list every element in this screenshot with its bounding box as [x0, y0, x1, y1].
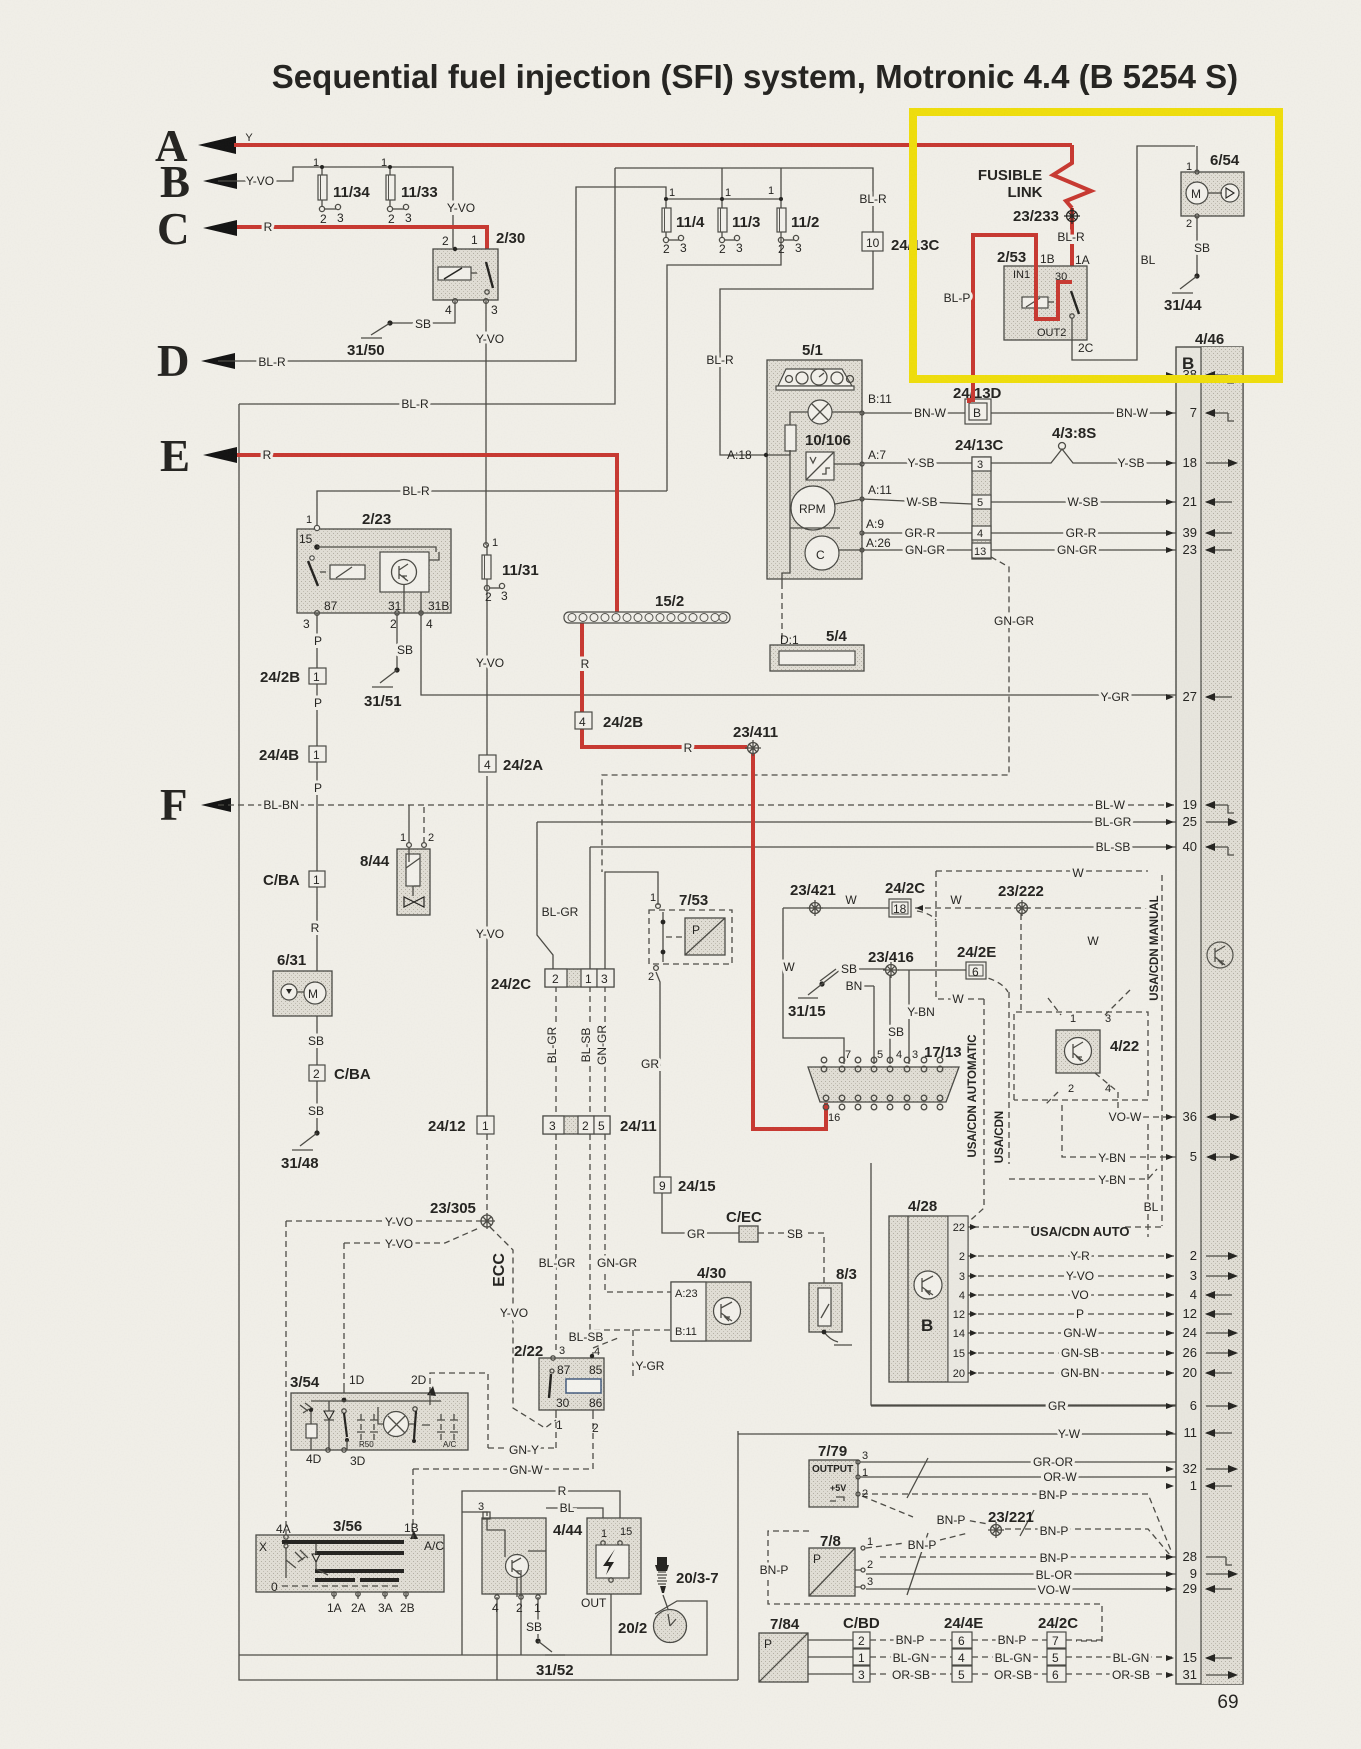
wire dashed VO-W to pin 36 — [1118, 1092, 1176, 1117]
wire 24/11 cells down dashed — [556, 1134, 671, 1352]
wire C/BD to 24/4E dashed rows — [870, 1640, 952, 1674]
wire red 23/411 down to 17/13 pin16 — [753, 753, 826, 1129]
connector 24/4E — [944, 1615, 983, 1682]
connector C/BA 2 — [309, 1065, 371, 1083]
connector 24/2C bottom — [1038, 1615, 1078, 1682]
wire 4/44 pin1 to SB ground 31/52 — [537, 1597, 539, 1638]
wire 24/15 down GR to C-EC — [662, 1192, 739, 1233]
wire 5/1 A:11 W-SB row to pin 21 — [862, 499, 1176, 504]
wire F row BL-BN BL-W dashed — [218, 804, 1176, 806]
wire 3/54 risers — [344, 1387, 430, 1393]
connector C/EC — [726, 1209, 762, 1242]
connector 24/4B — [259, 746, 326, 764]
wire BL-OR row to pin 9 — [866, 1573, 1176, 1575]
connector 24/2C-18 — [885, 880, 925, 917]
wire Y-VO dashed rows at 23/305 — [286, 1221, 479, 1243]
fusible link zigzag — [1053, 145, 1091, 208]
connector 24/12 — [428, 1116, 494, 1135]
wire 2/30 coil pin2 riser — [454, 248, 456, 254]
transistor 4/22 — [1056, 1013, 1139, 1095]
wire 3/56 pin stubs — [334, 1592, 406, 1599]
fuse 11/33 — [381, 157, 438, 226]
connector 24/2C mid — [491, 969, 614, 993]
power stage 4/44 — [478, 1501, 583, 1615]
connector 24/13C column — [955, 437, 1004, 559]
wire BL-SB row to pin 40 — [590, 847, 1176, 969]
amplifier 4/30 — [671, 1265, 751, 1341]
connector 24/2E — [957, 944, 996, 979]
wire 4/44 pin3 R row to coil pin15 — [462, 1491, 620, 1655]
wire 2/23 pin4 long Y-GR row to pin 27 — [421, 613, 1176, 695]
wire 2/30 pin4 to SB ground 31/50 — [390, 301, 455, 323]
wire 7/8 pin1 BN-P dashed — [866, 1533, 968, 1548]
wire BN-P row to pin 28 — [880, 1556, 1176, 1558]
fan switch 3/56 — [256, 1518, 444, 1615]
pin 9 — [1166, 1566, 1238, 1581]
spark plug 20/3-7 — [655, 1557, 719, 1593]
pin 15 — [1166, 1650, 1232, 1665]
relay 2/53 — [997, 146, 1195, 360]
wire GN-Y dashed row — [488, 1418, 556, 1448]
display 5/4 — [770, 628, 864, 671]
fuse 11/4 — [662, 187, 705, 256]
wire 4/28 pin rows dashed to strip — [968, 1256, 1176, 1373]
ground 31/52 — [535, 1638, 573, 1679]
splice 4/3:8S — [1052, 425, 1096, 450]
wire 24/12 down dashed to 23/305 — [486, 1134, 488, 1214]
relay 2/30 — [433, 230, 525, 317]
wire coil OUT down to 20/2 box — [610, 1581, 612, 1655]
wire 4/44 pin4 down — [496, 1597, 498, 1680]
wire Y-GR dashed jog at 2/22 pin4 — [593, 1330, 633, 1378]
wire 17/13 pin7 feed from W — [783, 908, 844, 1064]
wire dashed 4A riser — [285, 1221, 287, 1535]
wire 7/53 pin1 to 24/2C cell3 — [605, 872, 658, 969]
wire GN-W dashed row — [413, 1418, 593, 1535]
wire dashed Y-BN second row — [1009, 1169, 1157, 1179]
pump 6/31 — [273, 952, 332, 1016]
pin 1 — [1166, 1478, 1232, 1493]
wire dashed W upper — [917, 871, 1148, 1012]
wire 7/84 to C/BD rows — [808, 1640, 853, 1674]
pin 20 — [1166, 1365, 1232, 1380]
wire 23/421 row W to 24/2C-18 — [783, 907, 890, 909]
pin 27 — [1166, 689, 1232, 704]
connector 24/13D — [953, 385, 1002, 424]
ECU 4/28 — [889, 1198, 977, 1382]
wire slash marks — [907, 1458, 1034, 1595]
pin 6 — [1166, 1398, 1238, 1413]
wire VO-W row to pin 29 — [866, 1588, 1176, 1590]
wire 5/1 A:9 GR-R row to pin 39 — [862, 532, 1176, 534]
instrument cluster 5/1 — [727, 342, 892, 583]
wire 4/44 BL row to coil pin1 — [546, 1508, 603, 1538]
wire B Y-VO to fuses 11/34 11/33 bus — [218, 167, 453, 248]
injector 8/44 — [360, 832, 434, 915]
connector 24/2B right — [575, 712, 643, 731]
wire 5/1 D:1 dashed to 5/4 — [781, 583, 783, 641]
wire dashed manual box right — [1161, 875, 1163, 1226]
relay 2/23 — [297, 511, 451, 631]
output stage 7/79 — [809, 1443, 868, 1507]
wire 5/1 A:7 Y-SB row to pin 18 — [862, 449, 1176, 463]
pin 19 — [1166, 797, 1234, 813]
resistor 8/3 — [809, 1266, 857, 1345]
fuse 11/2 — [768, 185, 819, 256]
pin 18 — [1166, 455, 1238, 470]
wire BL-R row to 2/23 pin1 — [317, 491, 667, 528]
relay 2/22 — [514, 1343, 604, 1435]
pin 26 — [1166, 1345, 1238, 1360]
wire 4/44 pin2 stub — [520, 1597, 522, 1655]
wire red row C R to 2/30 pin1 — [237, 227, 487, 268]
pin 29 — [1166, 1581, 1232, 1596]
fuse 11/31 — [482, 537, 539, 604]
pump 6/54 — [1181, 146, 1244, 274]
fuse 11/34 — [313, 157, 370, 226]
wire dashed W 23/222 row — [915, 907, 1148, 909]
pin 28 — [1166, 1549, 1232, 1565]
wire dashed 1D riser — [343, 1243, 345, 1387]
wire 7/79 rows GR-OR OR-W — [860, 1462, 1176, 1477]
wire fuse 11/31 down Y-VO to 24/2A to 24/12 — [486, 586, 488, 1116]
connector 24/2B left — [260, 668, 326, 686]
connector C/BD — [843, 1615, 880, 1682]
wire 24/2C cells down dashed to 24/11 — [556, 986, 605, 1116]
wire 2/30 pin3 down Y-VO to fuse 11/31 — [486, 301, 487, 586]
pin 5 — [1166, 1149, 1240, 1164]
pin 36 — [1166, 1109, 1240, 1124]
distributor 20/2 — [618, 1610, 687, 1643]
wire C/EC dashed SB to 8/3 — [758, 1233, 824, 1283]
wire dashed USA/CDN AUTOMATIC — [963, 999, 984, 1227]
wire 24/13C box10 down BL-R to 5/1 A:18 — [720, 250, 873, 455]
junction 23/222 — [998, 883, 1044, 916]
junction 23/421 — [790, 882, 836, 916]
ground 31/15 — [788, 970, 840, 1020]
junction 23/411 — [733, 724, 778, 756]
wire 8/44 pin1 riser — [408, 805, 410, 843]
wire 5/1 A:26 GN-GR row to pin 23 — [862, 549, 1176, 551]
wire fuses 11/4 11/3 11/2 pin1 bus — [666, 199, 781, 238]
wire 20/2 box — [239, 1601, 707, 1655]
wire 2/23 pin2 to ground 31/51 — [396, 613, 398, 668]
wire spark plug to 20/2 — [663, 1595, 668, 1609]
wire 2/23 pin3 chain down C/BA 6/31 — [316, 613, 318, 1133]
wire GR row to pin 6 — [871, 1405, 1176, 1407]
wire GN-GR dashed from 24/13C pin13 down — [602, 557, 1009, 1164]
ground 31/51 — [364, 667, 402, 710]
wire 8/44 pin2 riser dashed — [423, 805, 425, 843]
pin 3 — [1166, 1268, 1238, 1283]
wire D BL-R to fuse 11/4 pin1 — [218, 187, 666, 361]
pin 2 — [1166, 1248, 1238, 1263]
wire left big outer box — [239, 404, 738, 1680]
pin 12 — [1166, 1306, 1232, 1321]
wire 7/53 pin2 GR down to 24/15 — [656, 972, 660, 1177]
ignition coil — [581, 1518, 641, 1610]
wire 23/416 to 24/2E — [898, 969, 966, 971]
wire dashed 4/22 pin2 to Y-BN pin5 — [1062, 1105, 1176, 1157]
connector C/BA 1 — [263, 871, 325, 889]
wire dashed USA/CDN AUTO row — [963, 1226, 1162, 1228]
wire red 15/2 to 24/2B R — [582, 622, 747, 747]
pin 4 — [1166, 1287, 1232, 1302]
pin 38 — [1166, 367, 1234, 383]
connector 24/13C box 10 — [859, 192, 939, 254]
connector 24/2A — [479, 755, 543, 774]
fuse strip 15/2 — [564, 593, 730, 623]
sensor 7/84 — [759, 1616, 808, 1682]
junction 23/221 — [988, 1509, 1034, 1538]
pin 24 — [1166, 1325, 1238, 1340]
pin 39 — [1166, 525, 1232, 540]
wire 24/4E to 24/2C dashed rows — [972, 1640, 1047, 1674]
pin 25 — [1166, 814, 1238, 829]
wire upper bus to 24/13C — [239, 168, 873, 404]
wire 5/1 B:11 BN-W row to pin 7 — [862, 412, 1176, 414]
junction 23/305 — [430, 1200, 495, 1229]
wire 31/15 ground link — [820, 969, 836, 981]
ground 31/50 — [347, 320, 393, 359]
wire Y-W row to pin 11 and lower box — [738, 1431, 1176, 1680]
wire BL-GR row to pin 25 — [537, 822, 1176, 969]
junction 23/416 — [868, 949, 914, 978]
ground 31/44 — [1164, 273, 1202, 314]
pin 31 — [1166, 1667, 1238, 1682]
wire fuse 11/34 stubs — [321, 167, 323, 207]
wire 8/3 ground — [824, 1332, 838, 1342]
wire dashed 23/305 to 2/22 pin30 — [490, 1227, 556, 1428]
wire dashed 4/22 pin diagonals — [1045, 990, 1130, 1105]
connector 24/11 — [543, 1116, 657, 1135]
wire 24/2C out dashed rows — [1066, 1640, 1176, 1674]
pin 40 — [1166, 839, 1234, 855]
wire dashed BL drop — [1147, 1124, 1149, 1237]
pin 11 — [1166, 1425, 1232, 1440]
pin 23 — [1166, 542, 1232, 557]
wire dashed box around 4/22 — [1014, 1012, 1148, 1100]
connector 24/15 — [654, 1177, 716, 1195]
wire BN-P 23/221 row — [862, 1496, 1170, 1555]
wire SB BN into 17/13 — [858, 969, 890, 1064]
wire 4/28 box frame — [871, 1163, 1176, 1405]
wire 7/79 BN-P dashed — [862, 1494, 1172, 1553]
wire red row E R to 15/2 — [237, 455, 617, 613]
wire Y-BN from 24/2E to 17/13 — [908, 970, 910, 1064]
wire red row A Y — [234, 143, 1072, 147]
pressure sensor 7/53 — [648, 892, 732, 983]
light switch 3/54 — [290, 1373, 468, 1468]
fuse 11/3 — [718, 187, 760, 256]
transistor in strip — [1207, 942, 1233, 968]
yellow highlight box — [913, 112, 1279, 379]
pin 7 — [1166, 405, 1234, 421]
wire 7/8 dashed frame — [768, 1531, 1102, 1641]
pin 32 — [1166, 1461, 1238, 1476]
sensor 7/8 — [809, 1533, 873, 1596]
connector 17/13 — [808, 1044, 962, 1124]
wire dashed 2D up and over — [430, 1373, 488, 1448]
wire fuse 11/33 stubs — [389, 167, 391, 207]
wire fuse 11/2 bottom to BL-R row — [667, 238, 781, 491]
ground 31/48 — [281, 1130, 320, 1172]
wire red staircase inside 2/53 to BL-P — [969, 235, 1072, 403]
pin 21 — [1166, 494, 1232, 509]
wire red BL-R down through 23/233 to relay 2/53 pin 1A — [1070, 208, 1074, 291]
